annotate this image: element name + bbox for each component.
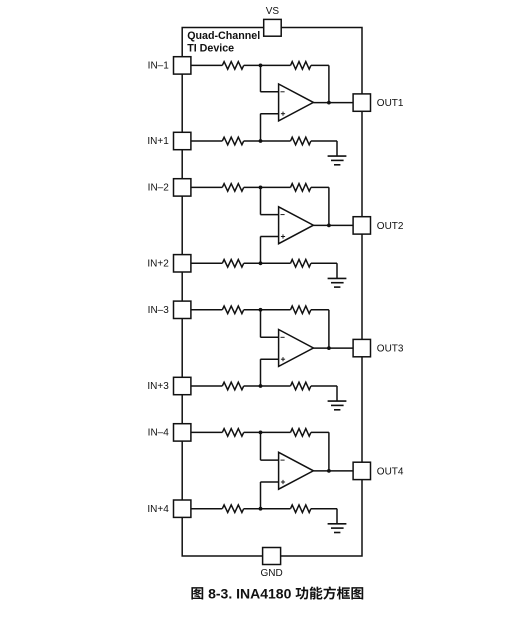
pin OUT4 (box) [353, 462, 370, 479]
junction: output node channel 1 [327, 101, 331, 105]
wire: to op-amp non-inverting input [260, 113, 278, 115]
wire: non-inverting node up [260, 359, 262, 386]
wire: non-inverting node up [260, 237, 262, 264]
junction: inverting input node channel 3 [259, 308, 263, 312]
wire: ground resistor to ground stub [311, 140, 337, 142]
svg-text:8-3. INA4180: 8-3. INA4180 [208, 585, 291, 601]
wire: non-inverting node up [260, 482, 262, 509]
wire: op-amp output to OUT4 pin [313, 470, 353, 472]
pin IN–4 (box) [174, 424, 191, 441]
pin label VS [266, 6, 280, 17]
wire: to op-amp inverting input [260, 336, 278, 338]
pin IN+4 (box) [174, 500, 191, 517]
wire: IN+2 pin to input resistor [191, 262, 222, 264]
wire: ground resistor to ground stub [311, 508, 337, 510]
device title text: Quad-Channel TI Device [187, 30, 260, 55]
resistor R1a (IN–1 input resistor) [222, 62, 243, 70]
wire: feedback down-wire to output node [328, 65, 330, 102]
junction: inverting input node channel 2 [259, 186, 263, 190]
wire: to op-amp inverting input [260, 91, 278, 93]
wire: ground resistor to ground stub [311, 262, 337, 264]
wire: inverting node down [260, 65, 262, 91]
pin label IN–4 [148, 428, 170, 439]
resistor R3c (IN+3 input resistor) [222, 382, 243, 390]
wire: ground stub down [336, 386, 338, 401]
svg-text:IN+3: IN+3 [147, 381, 169, 392]
wire: to op-amp inverting input [260, 459, 278, 461]
wire: input resistor to feedback resistor (through inverting node) [244, 64, 291, 66]
ground symbol channel 2 [328, 278, 347, 287]
wire: IN+3 pin to input resistor [191, 385, 222, 387]
svg-text:OUT4: OUT4 [377, 466, 404, 477]
pin IN+1 (box) [174, 132, 191, 149]
resistor R2b (feedback resistor) [291, 184, 311, 192]
resistor R4c (IN+4 input resistor) [222, 505, 243, 513]
junction: output node channel 4 [327, 469, 331, 473]
op-amp A3 inverting input marker (−) [281, 336, 285, 338]
pin GND (bottom ground pin box) [263, 548, 281, 565]
resistor R2d (ground-leg resistor) [291, 260, 311, 268]
wire: op-amp output to OUT1 pin [313, 102, 353, 104]
svg-text:IN–3: IN–3 [148, 305, 170, 316]
pin label IN–2 [148, 183, 170, 194]
ground symbol channel 3 [328, 401, 347, 410]
wire: IN–3 pin to input resistor [191, 309, 222, 311]
pin IN–2 (box) [174, 179, 191, 196]
pin label IN+4 [147, 504, 169, 515]
op-amp A1 non-inverting input marker (+) [281, 112, 285, 116]
pin IN–1 (box) [174, 57, 191, 74]
wire: input resistor to ground resistor (through non-inverting node) [244, 385, 291, 387]
wire: input resistor to feedback resistor (through inverting node) [244, 431, 291, 433]
op-amp A1 (channel 1 amplifier) [279, 84, 314, 121]
op-amp A2 (channel 2 amplifier) [279, 207, 314, 244]
wire: input resistor to feedback resistor (through inverting node) [244, 309, 291, 311]
svg-text:OUT3: OUT3 [377, 344, 404, 355]
pin label OUT4 [377, 466, 404, 477]
wire: op-amp output to OUT2 pin [313, 224, 353, 226]
pin label OUT3 [377, 344, 404, 355]
pin label IN+2 [147, 259, 169, 270]
junction: non-inverting input node channel 1 [259, 139, 263, 143]
wire: inverting node down [260, 187, 262, 214]
op-amp A2 non-inverting input marker (+) [281, 234, 285, 238]
wire: IN+1 pin to input resistor [191, 140, 222, 142]
wire: to op-amp non-inverting input [260, 236, 278, 238]
junction: output node channel 2 [327, 224, 331, 228]
svg-text:TI Device: TI Device [187, 42, 234, 54]
ground symbol channel 1 [328, 156, 347, 165]
resistor R3b (feedback resistor) [291, 306, 311, 314]
svg-text:Quad-Channel: Quad-Channel [187, 30, 260, 42]
pin OUT3 (box) [353, 339, 370, 356]
wire: input resistor to ground resistor (through non-inverting node) [244, 508, 291, 510]
resistor R3a (IN–3 input resistor) [222, 306, 243, 314]
resistor R3d (ground-leg resistor) [291, 382, 311, 390]
pin OUT2 (box) [353, 217, 370, 234]
wire: feedback down-wire to output node [328, 187, 330, 225]
svg-text:OUT1: OUT1 [377, 98, 404, 109]
wire: inverting node down [260, 432, 262, 460]
svg-text:VS: VS [266, 6, 280, 17]
svg-text:OUT2: OUT2 [377, 221, 404, 232]
wire: feedback resistor to output node (top) [311, 186, 329, 188]
figure caption: 图 8-3. INA4180 功能方框图 [191, 585, 363, 601]
op-amp A1 inverting input marker (−) [281, 91, 285, 93]
wire: to op-amp non-inverting input [260, 481, 278, 483]
wire: ground stub down [336, 509, 338, 524]
op-amp A3 non-inverting input marker (+) [281, 357, 285, 361]
pin label IN–1 [148, 61, 170, 72]
pin OUT1 (box) [353, 94, 370, 111]
resistor R1b (feedback resistor) [291, 62, 311, 70]
wire: to op-amp inverting input [260, 214, 278, 216]
wire: feedback resistor to output node (top) [311, 64, 329, 66]
wire: inverting node down [260, 310, 262, 338]
pin VS (top supply pin box) [264, 19, 282, 36]
wire: input resistor to feedback resistor (through inverting node) [244, 186, 291, 188]
wire: op-amp output to OUT3 pin [313, 347, 353, 349]
wire: non-inverting node up [260, 114, 262, 141]
wire: input resistor to ground resistor (through non-inverting node) [244, 262, 291, 264]
resistor R4b (feedback resistor) [291, 429, 311, 437]
pin label OUT2 [377, 221, 404, 232]
wire: input resistor to ground resistor (through non-inverting node) [244, 140, 291, 142]
op-amp A4 non-inverting input marker (+) [281, 480, 285, 484]
junction: non-inverting input node channel 2 [259, 261, 263, 265]
svg-text:IN+2: IN+2 [147, 259, 169, 270]
svg-text:IN–1: IN–1 [148, 61, 170, 72]
wire: IN–1 pin to input resistor [191, 64, 222, 66]
ground symbol channel 4 [328, 524, 347, 533]
wire: feedback resistor to output node (top) [311, 309, 329, 311]
pin label GND [260, 568, 282, 579]
svg-text:IN–4: IN–4 [148, 428, 170, 439]
op-amp A2 inverting input marker (−) [281, 214, 285, 216]
wire: feedback down-wire to output node [328, 310, 330, 348]
pin IN+2 (box) [174, 255, 191, 272]
junction: output node channel 3 [327, 346, 331, 350]
svg-text:IN+1: IN+1 [147, 136, 169, 147]
junction: non-inverting input node channel 3 [259, 384, 263, 388]
pin label OUT1 [377, 98, 404, 109]
resistor R4d (ground-leg resistor) [291, 505, 311, 513]
wire: IN–2 pin to input resistor [191, 186, 222, 188]
pin label IN–3 [148, 305, 170, 316]
pin IN–3 (box) [174, 301, 191, 318]
wire: ground stub down [336, 263, 338, 278]
device boundary rectangle (quad-channel TI device outline) [182, 28, 362, 557]
wire: feedback resistor to output node (top) [311, 431, 329, 433]
op-amp A4 (channel 4 amplifier) [279, 452, 314, 489]
resistor R2a (IN–2 input resistor) [222, 184, 243, 192]
wire: IN+4 pin to input resistor [191, 508, 222, 510]
wire: ground resistor to ground stub [311, 385, 337, 387]
junction: inverting input node channel 4 [259, 431, 263, 435]
pin label IN+3 [147, 381, 169, 392]
resistor R1d (ground-leg resistor) [291, 137, 311, 145]
op-amp A3 (channel 3 amplifier) [279, 330, 314, 367]
wire: IN–4 pin to input resistor [191, 431, 222, 433]
svg-text:IN+4: IN+4 [147, 504, 169, 515]
wire: to op-amp non-inverting input [260, 358, 278, 360]
op-amp A4 inverting input marker (−) [281, 459, 285, 461]
junction: non-inverting input node channel 4 [259, 507, 263, 511]
junction: inverting input node channel 1 [259, 64, 263, 68]
wire: feedback down-wire to output node [328, 432, 330, 471]
resistor R1c (IN+1 input resistor) [222, 137, 243, 145]
svg-text:GND: GND [260, 568, 282, 579]
svg-text:IN–2: IN–2 [148, 183, 170, 194]
wire: ground stub down [336, 141, 338, 156]
pin IN+3 (box) [174, 377, 191, 394]
pin label IN+1 [147, 136, 169, 147]
resistor R4a (IN–4 input resistor) [222, 429, 243, 437]
resistor R2c (IN+2 input resistor) [222, 260, 243, 268]
